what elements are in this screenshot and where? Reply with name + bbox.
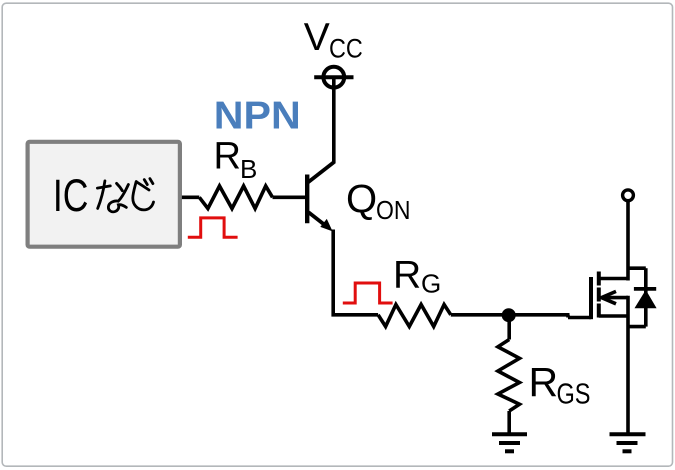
svg-text:V: V bbox=[304, 16, 330, 59]
svg-text:Q: Q bbox=[346, 178, 377, 222]
svg-text:GS: GS bbox=[557, 378, 591, 410]
wire: source vertical bbox=[626, 296, 630, 433]
svg-text:CC: CC bbox=[329, 34, 363, 64]
label QON bbox=[346, 178, 411, 225]
wire: RB to base bbox=[273, 196, 306, 200]
label RGS bbox=[529, 359, 591, 410]
wire: emitter down bbox=[331, 230, 335, 317]
svg-text:R: R bbox=[393, 253, 421, 296]
power VCC terminal bbox=[314, 67, 353, 88]
block U1: IC box "ICなど" bbox=[28, 142, 180, 247]
wire: RG to gate bbox=[451, 315, 591, 318]
ground GND1 bbox=[492, 434, 527, 451]
terminal: drain circle bbox=[623, 190, 634, 201]
svg-text:B: B bbox=[240, 154, 257, 184]
wire: junction to RGS bbox=[507, 315, 511, 339]
wire: collector diagonal bbox=[308, 162, 334, 183]
wire: VCC to collector bbox=[332, 77, 336, 163]
label RB bbox=[214, 135, 258, 184]
resistor RGS bbox=[498, 340, 520, 412]
wire: drain vertical bbox=[626, 201, 630, 281]
kana do bbox=[133, 179, 154, 210]
svg-text:R: R bbox=[214, 135, 241, 177]
body arrow bbox=[602, 291, 629, 303]
kana na bbox=[97, 181, 128, 212]
wire: IC box to RB bbox=[182, 196, 199, 200]
wire: RGS to ground bbox=[507, 411, 511, 433]
transistor Q2: MOSFET bbox=[591, 272, 628, 320]
label RG bbox=[393, 253, 441, 298]
gate plate bbox=[589, 277, 593, 319]
drain stub bbox=[599, 277, 628, 281]
svg-text:ON: ON bbox=[376, 195, 411, 225]
transistor Q1 base bar bbox=[305, 175, 309, 224]
svg-text:G: G bbox=[421, 268, 441, 298]
transistor Q1 emitter with arrow bbox=[309, 212, 333, 231]
resistor RB bbox=[199, 186, 272, 209]
resistor RG bbox=[378, 305, 451, 327]
svg-text:NPN: NPN bbox=[214, 94, 301, 137]
pulse at RG input (red) bbox=[343, 283, 393, 303]
label VCC bbox=[304, 16, 363, 64]
pulse input (red) at IC output bbox=[188, 218, 238, 237]
source stub bbox=[599, 314, 628, 318]
channel bar segments bbox=[597, 272, 601, 318]
ground GND2 bbox=[610, 434, 646, 451]
node A: gate junction dot bbox=[502, 308, 516, 322]
wire: emitter to RG bbox=[332, 313, 379, 317]
diode D1 (body diode) bbox=[628, 268, 657, 326]
svg-text:R: R bbox=[529, 359, 559, 405]
svg-text:IC: IC bbox=[53, 170, 89, 221]
